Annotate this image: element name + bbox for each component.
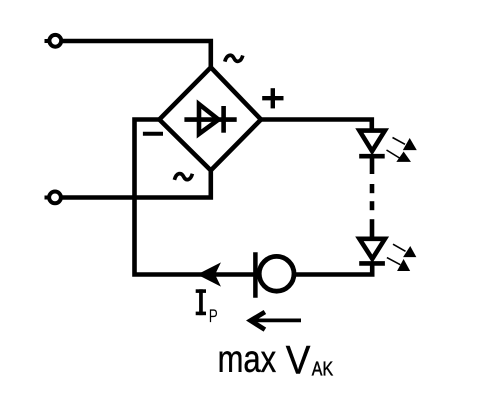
plus label (DC + output) xyxy=(262,88,283,108)
minus label (DC - output) xyxy=(143,132,163,136)
diode symbol inside bridge xyxy=(184,104,236,134)
LED D2 emission arrow lower xyxy=(387,258,409,271)
tilde top (AC mark) xyxy=(225,55,243,61)
LED D1 emission arrow upper xyxy=(393,138,416,150)
wire above LED D2 xyxy=(370,219,375,239)
wire from T1 to bridge top vertex xyxy=(63,41,211,67)
tilde bottom (AC mark) xyxy=(174,174,192,180)
LED D1 emission arrow lower xyxy=(387,150,411,161)
svg-text:V: V xyxy=(286,338,311,382)
bridge rectifier B1 diamond outline xyxy=(159,67,261,170)
dashed wire (LED string continuation) xyxy=(370,184,375,210)
LED D2 triangle xyxy=(359,239,385,259)
wire from bridge minus vertex down and right to current source xyxy=(135,120,256,275)
current direction arrowhead Ip (filled, pointing left) xyxy=(199,264,220,285)
svg-text:AK: AK xyxy=(312,358,334,380)
wire from bridge plus vertex to LED D1 anode xyxy=(261,120,372,131)
svg-text:P: P xyxy=(209,305,218,326)
current source CR1 circle xyxy=(259,256,294,291)
svg-text:max: max xyxy=(218,339,277,381)
LED D2 cathode bar xyxy=(359,261,385,266)
LED D1 cathode bar xyxy=(359,154,385,159)
current source CR1 bar xyxy=(253,252,258,297)
terminal T1 (top AC input) xyxy=(45,35,62,47)
wire below LED D1 xyxy=(370,156,375,174)
wire from T2 to bridge bottom vertex xyxy=(62,170,211,197)
LED D1 triangle xyxy=(359,131,385,152)
label max VAK xyxy=(218,338,334,382)
label Ip (current) xyxy=(196,289,218,326)
LED D2 emission arrow upper xyxy=(393,244,416,256)
max VAK direction arrow (open, pointing left) xyxy=(251,312,301,330)
terminal T2 (bottom AC input) xyxy=(45,192,61,204)
wire from current source to LED string cathode xyxy=(296,263,372,274)
